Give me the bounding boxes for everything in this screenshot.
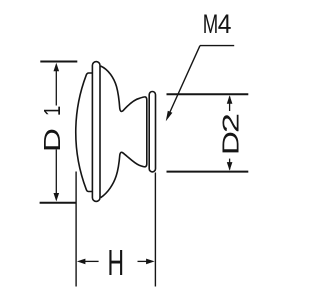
D2 dim line lower segment xyxy=(229,159,231,170)
D2 top tick xyxy=(167,93,249,95)
knob front face arc xyxy=(76,73,93,192)
D1 dim line lower segment xyxy=(55,150,57,200)
D1 up arrow xyxy=(54,63,60,72)
H left arrow xyxy=(77,259,86,265)
D1 down arrow xyxy=(54,193,60,202)
D1 dim line upper segment xyxy=(55,65,57,106)
H right arrow shaft xyxy=(138,260,148,262)
H right extension line xyxy=(154,173,156,287)
svg-text:D: D xyxy=(40,128,66,152)
knob neck and collar outline xyxy=(101,66,147,198)
svg-text:1: 1 xyxy=(40,106,65,116)
svg-text:2: 2 xyxy=(219,113,244,133)
D2 bottom tick xyxy=(167,171,249,173)
H left extension line xyxy=(75,172,77,287)
svg-text:H: H xyxy=(108,242,125,283)
M4 leader arrowhead xyxy=(166,111,173,122)
D2 up arrow xyxy=(227,95,233,104)
knob rim capsule xyxy=(92,62,100,202)
D2 dim line upper segment xyxy=(229,97,231,112)
H left arrow shaft xyxy=(85,260,99,262)
H right arrow xyxy=(146,259,155,265)
svg-text:4: 4 xyxy=(218,10,232,39)
knob flange capsule xyxy=(149,92,155,172)
M4 leader shoulder xyxy=(200,45,234,47)
svg-text:D: D xyxy=(218,131,244,155)
D1 bottom tick xyxy=(40,202,77,204)
D2 down arrow xyxy=(227,162,233,171)
M4 leader line xyxy=(170,46,201,113)
svg-text:M: M xyxy=(203,9,218,39)
D1 top tick xyxy=(40,61,77,63)
